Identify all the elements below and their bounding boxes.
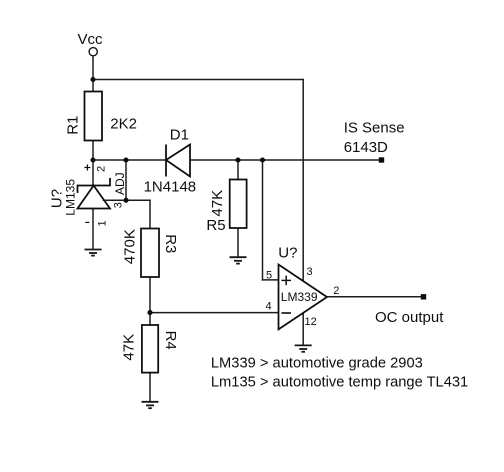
svg-text:Vcc: Vcc (78, 31, 104, 48)
svg-text:1: 1 (97, 220, 109, 226)
svg-text:R3: R3 (162, 234, 179, 253)
svg-text:LM339 > automotive grade 2903: LM339 > automotive grade 2903 (211, 356, 423, 372)
wire R1 bottom to LM135 (92, 141, 94, 186)
ground under pin 12 (295, 345, 312, 351)
temp sensor U? LM135 (78, 178, 111, 209)
wire pin 4 horizontal (150, 312, 279, 314)
junction dot at Vcc rail (90, 77, 95, 82)
wire R4 bottom to ground (149, 373, 151, 402)
svg-text:6143D: 6143D (344, 139, 388, 156)
junction dot pin5 drop (260, 157, 265, 162)
svg-text:IS Sense: IS Sense (344, 120, 405, 137)
wire corner down to R3 top (149, 200, 151, 228)
ground under R4 (142, 402, 159, 408)
junction dot R5 top (235, 157, 240, 162)
svg-text:R5: R5 (206, 217, 225, 234)
junction dot R3/R4 node (147, 310, 152, 315)
wire pin 12 to ground (302, 313, 304, 345)
svg-text:47K: 47K (209, 190, 226, 217)
svg-text:3: 3 (307, 266, 313, 278)
svg-text:LM339: LM339 (281, 290, 318, 304)
svg-text:U?: U? (278, 245, 297, 262)
resistor R3 body (141, 229, 159, 278)
wire pin 5 horizontal (263, 279, 279, 281)
svg-text:R1: R1 (64, 116, 81, 135)
terminal OC output (square pad) (421, 294, 426, 299)
terminal IS Sense (square pad) (379, 157, 384, 162)
svg-text:D1: D1 (170, 127, 189, 144)
svg-text:2: 2 (96, 166, 108, 172)
svg-text:12: 12 (305, 316, 317, 328)
svg-text:5: 5 (266, 269, 272, 281)
wire LM135 pin 1 to ground (92, 209, 94, 250)
wire top rail horizontal (93, 79, 303, 81)
svg-text:1N4148: 1N4148 (144, 178, 197, 195)
junction dot ADJ node (123, 198, 128, 203)
wire Vcc pin stub (92, 56, 94, 80)
svg-text:ADJ: ADJ (113, 172, 127, 195)
resistor R1 body (85, 92, 103, 141)
wire D1 anode to IS Sense terminal (190, 159, 379, 161)
svg-text:47K: 47K (121, 334, 138, 361)
ground under R5 (230, 257, 247, 263)
svg-text:3: 3 (113, 202, 125, 208)
power Vcc terminal circle (89, 48, 97, 56)
resistor R5 body (230, 180, 247, 229)
svg-text:2K2: 2K2 (110, 116, 137, 133)
wire node A horizontal left (to D1 cathode) (93, 159, 166, 161)
LM135 minus sign (85, 221, 89, 223)
svg-text:470K: 470K (122, 229, 139, 264)
wire top rail vertical to pin 3 (302, 80, 304, 282)
LM339 minus sign (281, 312, 291, 314)
wire junction to R4 top (149, 313, 151, 325)
svg-text:R4: R4 (162, 331, 179, 350)
wire R3 bottom to junction (149, 277, 151, 313)
junction dot node A at R1 bottom (90, 157, 95, 162)
ground under LM135 (85, 250, 102, 256)
diode D1 (166, 145, 190, 177)
svg-text:2: 2 (333, 285, 339, 297)
svg-text:4: 4 (266, 301, 272, 313)
wire R5 top drop (237, 160, 239, 180)
wire pin 2 output (327, 296, 421, 298)
svg-text:LM135: LM135 (63, 179, 77, 216)
LM339 plus sign (281, 276, 291, 286)
LM135 plus sign (84, 165, 90, 171)
wire junction to R1 top (92, 80, 94, 92)
svg-text:OC output: OC output (375, 309, 444, 326)
wire ADJ pin to corner (104, 199, 151, 201)
svg-text:Lm135 > automotive temp range: Lm135 > automotive temp range TL431 (211, 374, 468, 390)
resistor R4 body (142, 325, 158, 373)
wire R5 bottom to ground (237, 228, 239, 257)
wire node A drop to ADJ (125, 160, 127, 200)
wire pin 5 drop (262, 160, 264, 280)
junction dot ADJ drop (123, 157, 128, 162)
comparator U? LM339 (279, 265, 328, 330)
